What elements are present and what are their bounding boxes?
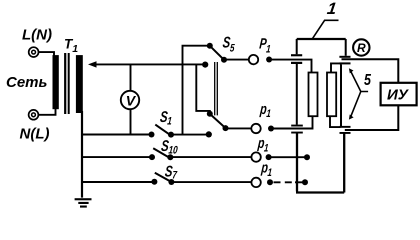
right column mid wire (340, 64, 342, 126)
terminal P1 row2 (251, 124, 260, 133)
terminal L(N) (29, 47, 39, 57)
leader line for label 1 (312, 20, 339, 39)
wire S7 to P1 row4 (173, 181, 252, 183)
junction dot row4 (267, 179, 273, 185)
junction dot row2 (268, 126, 274, 132)
svg-text:Сеть: Сеть (6, 74, 48, 91)
junction dot row1 (266, 57, 272, 63)
terminal P1 row4 (251, 178, 260, 187)
resistor R2 (327, 73, 336, 117)
ground (75, 198, 92, 207)
left column mid wire (296, 64, 298, 125)
capacitor C-left-bottom (291, 125, 303, 127)
blade S7 (155, 173, 171, 182)
wire row1 to resistor R1 top (269, 60, 311, 73)
junction dot row4 right (302, 179, 308, 185)
capacitor C-right-bottom (340, 126, 351, 128)
switch S1 (149, 132, 175, 138)
contact top (207, 43, 213, 49)
wire S5 upper bracket (183, 46, 210, 135)
svg-text:1: 1 (326, 0, 338, 18)
wire row2 to resistor R1 bottom (271, 116, 313, 128)
pole top (221, 57, 227, 63)
transformer core line (68, 53, 70, 114)
wire bottom rail to IU (345, 105, 399, 130)
blade S10 (153, 148, 169, 157)
wire tap to S5 lower contact (94, 63, 205, 65)
terminal P1 row1 (249, 55, 258, 64)
resistor R2 top lead (331, 63, 341, 72)
svg-text:L(N): L(N) (22, 27, 52, 44)
contact lower (206, 131, 212, 137)
svg-text:5: 5 (364, 71, 372, 89)
wire S1 row from secondary vertical (82, 134, 152, 136)
terminal P1 row3 (251, 152, 260, 161)
wire S5 bottom pole to P1 row2 (226, 127, 252, 129)
wire S10 row from secondary vertical (82, 156, 153, 158)
wire L(N) to transformer primary top (39, 52, 54, 56)
svg-text:S5: S5 (222, 34, 237, 55)
resistor R2 bottom lead (330, 116, 341, 127)
terminal N(L) (29, 110, 39, 120)
wire N(L) to transformer primary bottom (39, 109, 56, 115)
svg-text:p1: p1 (258, 100, 272, 121)
wire S1 to S5 lower throw contact (171, 134, 209, 136)
svg-text:ИУ: ИУ (387, 87, 410, 104)
wire S5 inner bracket (196, 64, 210, 113)
wire S5 top pole to P1 row1 (224, 59, 249, 61)
dashed wire row4 (274, 181, 294, 183)
wire network to IU top (342, 59, 399, 83)
wire row3 to network column (269, 156, 307, 158)
capacitor C-left-top (296, 39, 298, 54)
svg-text:p1: p1 (260, 159, 274, 180)
pole bottom (223, 125, 229, 131)
voltmeter V (121, 91, 139, 109)
measuring device IU box (381, 83, 417, 106)
svg-text:T1: T1 (64, 37, 78, 55)
wire secondary bottom vertical to ground (81, 111, 83, 198)
switch S7 (151, 179, 174, 185)
wire voltmeter branch upper (130, 64, 132, 91)
resistor R1 (309, 73, 318, 117)
blade S5 bottom (210, 114, 225, 127)
switch S10 (149, 154, 173, 160)
transformer T1 primary winding bar (53, 55, 59, 109)
transformer core line (64, 53, 66, 114)
svg-text:S1: S1 (159, 108, 173, 128)
svg-text:P1: P1 (258, 35, 271, 56)
capacitor C-right-top (345, 39, 347, 56)
wire voltmeter branch lower (130, 109, 132, 135)
junction dot row3 right (304, 154, 310, 160)
tap arrow on secondary (88, 61, 97, 67)
svg-text:R: R (357, 41, 366, 55)
left column lower wire and bottom rail (296, 133, 344, 193)
junction dot row3 (266, 154, 272, 160)
switch S5 bottom section (206, 111, 229, 138)
network top bracket (297, 38, 346, 40)
switch S5 top section (202, 43, 227, 68)
wire S7 row from secondary vertical (82, 181, 154, 183)
blade S1 (155, 125, 170, 135)
wire row4 across column (295, 181, 305, 183)
blade S5 top (210, 46, 223, 59)
S5 mechanical linkage (215, 62, 218, 115)
svg-text:N(L): N(L) (20, 125, 50, 142)
svg-text:V: V (126, 92, 137, 108)
wire S10 to P1 row3 (171, 156, 251, 158)
contact upper (207, 111, 213, 117)
contact from tap (202, 62, 208, 68)
transformer T1 secondary winding bar (76, 55, 83, 113)
circled R (353, 39, 369, 55)
